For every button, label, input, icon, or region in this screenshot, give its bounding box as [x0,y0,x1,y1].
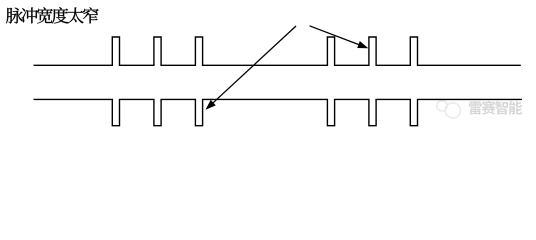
watermark logo: light swoosh circles [437,101,461,118]
arrow callout to narrow pulse on top waveform [310,26,369,48]
top pulse train waveform (narrow up-going pulses) [34,37,521,65]
watermark text 雷赛智能 (Leadshine) [469,101,522,115]
title text 脉冲宽度太窄 (pulse width too narrow) [6,7,99,23]
arrow callout to narrow pulse on bottom waveform [206,26,297,110]
bottom pulse train waveform (narrow down-going pulses) [34,99,523,125]
